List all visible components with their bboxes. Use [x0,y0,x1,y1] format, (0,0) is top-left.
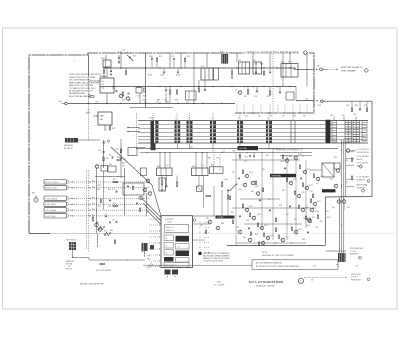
svg-text:R26: R26 [143,96,146,98]
svg-text:R31: R31 [244,96,247,98]
resistor zigzag R69 [104,232,111,236]
svg-text:767: 767 [313,266,316,268]
capacitor C37 [120,157,122,159]
transistor Q50 [346,149,349,152]
capacitor C34 [136,202,138,204]
table bottom cell [164,263,189,268]
table dark cell left [164,257,174,262]
transistor Q56 [294,230,297,233]
wire below Q53 [343,204,345,210]
transistor Q49 [294,156,297,159]
ground stub 178 [177,71,180,73]
svg-text:C52: C52 [345,182,348,184]
svg-text:VOLTS/DIV: VOLTS/DIV [165,219,174,221]
switch section S30-12 [353,121,360,144]
wire control line 1 [70,181,73,183]
dashed drops to y113 rail [236,105,238,114]
wire diagonal 2 [152,185,161,216]
svg-text:C44: C44 [353,114,356,116]
svg-text:C40: C40 [330,115,333,117]
board outline bottom edge [29,232,50,234]
svg-text:0 1: 0 1 [199,222,201,224]
svg-text:Q34: Q34 [206,218,209,220]
relay K21 [201,68,213,80]
svg-text:C54: C54 [347,207,350,209]
resistor R30a [169,90,171,94]
svg-text:L21: L21 [144,102,147,104]
input coupling relay [65,138,78,143]
svg-text:Q101: Q101 [255,186,259,188]
page crease line [29,232,396,234]
transistor Q21 [126,97,129,100]
transistor Q53 [305,186,308,189]
stamp mark [146,263,152,269]
relay K23 [281,64,298,78]
wire x145.5 main [145,53,147,108]
transistor Q40 [243,183,246,186]
svg-text:R86: R86 [255,234,258,236]
svg-text:R117: R117 [312,217,316,219]
transistor Q20 [119,94,122,97]
svg-text:VERTICAL SIGNAL TO: VERTICAL SIGNAL TO [341,66,363,69]
resistor R78 [250,232,251,236]
svg-text:C86: C86 [236,227,239,229]
capacitor C67 [269,209,271,211]
switch section S30-5a [210,121,212,124]
resistor R81 [229,196,230,200]
svg-text:C50: C50 [345,160,348,162]
transistor Q61 [261,241,264,244]
resistor R49 [114,240,115,244]
block U30 [101,166,108,172]
highlighted label ATTEN BAL [270,174,296,178]
bus diagonals into table [140,197,161,218]
svg-text:0 1: 0 1 [199,227,201,229]
svg-text:K23: K23 [281,61,284,63]
svg-text:ATTEN: ATTEN [100,75,106,78]
svg-text:C89: C89 [290,243,293,245]
resistor R63 [242,204,243,208]
svg-text:P: P [359,258,360,260]
ground R41 [161,189,164,191]
svg-text:Q86: Q86 [243,237,246,239]
svg-text:420: 420 [305,98,308,100]
transistor Q63 [307,218,310,221]
circled P symbol [359,256,362,259]
resistor R68 [299,165,300,169]
switch section S30-2b [155,121,158,124]
svg-text:R72: R72 [113,203,116,205]
resistor R34 [117,159,121,161]
wire control line 3 [70,198,73,200]
svg-text:5 mV 1 (S3-4): 5 mV 1 (S3-4) [45,216,56,218]
connector box 2 [44,185,67,190]
wire x339.5 vertical [339,197,341,253]
capacitor C36 [227,189,229,191]
switch section S30-4a [187,121,189,124]
wire x97.5 [97,233,99,247]
transistor Q60 [248,238,251,241]
transistor Q41 [251,181,254,184]
svg-text:C28: C28 [254,96,257,98]
resistor R38 [139,208,140,212]
wire control line 6 [70,215,73,217]
comps near 306-320 y190 [312,194,313,198]
svg-text:C22: C22 [128,99,131,101]
svg-text:TP40: TP40 [244,157,248,159]
capacitor C33 [165,185,167,187]
capacitor C65 [289,205,291,207]
svg-text:0 1: 0 1 [199,242,201,244]
svg-text:C35: C35 [216,158,219,160]
connector P40 hatched [338,253,346,262]
svg-text:R119: R119 [317,201,321,203]
component column row1 [113,181,118,183]
wire x124.5 vertical [124,168,126,215]
transistor Q22 [238,91,241,94]
svg-text:20mV 1 0 1: 20mV 1 0 1 [166,230,174,232]
svg-text:P40: P40 [336,265,339,267]
svg-text:20 mV 1-2 (S3-4): 20 mV 1-2 (S3-4) [45,182,58,184]
switch section S30-5b [213,121,216,124]
svg-text:S30B: S30B [150,147,154,149]
svg-text:0 1: 0 1 [199,237,201,239]
wire diagonal from coupling to table [111,147,152,185]
volts div knob symbol [34,198,38,202]
resistor R72 [298,205,299,209]
wire Q50 right [350,150,356,152]
svg-text:R25: R25 [187,56,190,58]
svg-text:L26: L26 [95,101,98,103]
svg-text:423: 423 [317,65,320,67]
switch section S30-3b [178,121,181,124]
board label VERTICAL MODE ATTENUATOR BOARD [245,50,309,54]
capacitor C28 [255,71,257,73]
svg-text:-5: -5 [267,117,269,119]
wire dashed x136.5 [136,113,138,148]
wire x96.5 vertical [96,168,98,233]
table row 3 dark cell [176,251,190,257]
svg-text:ATTENUATOR CIRCUIT: ATTENUATOR CIRCUIT [69,90,94,93]
svg-text:Q113: Q113 [293,179,297,181]
switch section S30-7b [269,121,272,124]
svg-text:R68: R68 [96,222,99,224]
svg-text:R87: R87 [320,221,323,223]
circle terminal 420 [321,100,324,103]
connector J32 hatched [69,242,76,250]
svg-text:R98: R98 [266,155,269,157]
wire K20 drop [105,55,107,60]
transistor Q46 [260,226,263,229]
svg-text:C27: C27 [253,60,256,62]
transistor Q58 [313,202,316,205]
svg-text:R83: R83 [251,191,254,193]
svg-text:TO CH 2: TO CH 2 [350,251,357,253]
svg-text:+5.1V: +5.1V [165,165,169,167]
dots under table [167,276,168,277]
right shield outline [322,101,372,244]
transistor Q32 [98,228,101,231]
svg-text:-3: -3 [211,117,213,119]
svg-text:P: P [313,73,314,75]
svg-text:438: 438 [293,116,296,118]
resistor R28b [198,88,200,92]
svg-text:R122: R122 [327,217,331,219]
svg-text:USED IN BOTH CH 1 AND: USED IN BOTH CH 1 AND [69,76,96,79]
resistor R29 [231,71,232,75]
dots on y113 rail [243,112,244,113]
svg-text:C88: C88 [315,227,318,229]
ground G31 [105,215,108,217]
wire x103.5 lower [103,171,105,210]
wire hybrid to bus [106,93,108,104]
resistor R60 [242,170,243,174]
relay K22 [239,62,250,74]
connector box 5 [44,208,67,213]
transistor Q53 [337,200,340,203]
svg-text:R111: R111 [289,156,293,158]
separator rule [143,264,252,266]
svg-text:-1: -1 [175,117,177,119]
resistor R41 [161,180,163,185]
resistor R83 [275,218,276,222]
capacitor C26 [165,89,167,91]
switch section S30-6a [237,121,239,124]
relay K31 [192,168,209,176]
module X21 [214,68,219,80]
svg-text:C28: C28 [254,64,257,66]
switch cam box [123,183,144,195]
transistor Q54 [301,208,304,211]
right diamond symbol 2 [361,189,365,193]
wire below U21 [104,125,106,131]
transistor Q30 [95,165,98,168]
component column row4 [115,221,117,223]
svg-text:P20: P20 [220,52,223,54]
svg-text:R90: R90 [282,190,285,192]
svg-text:407: 407 [311,280,314,282]
svg-text:K32: K32 [211,165,214,167]
resistor R70 [294,191,295,195]
capacitor C29 [269,71,271,73]
table row 2 left [164,243,174,249]
switch section S30-3a [175,121,177,124]
svg-text:C31: C31 [156,102,159,104]
resistor R30c [103,157,104,161]
wire y176.5 [95,176,125,178]
svg-text:R54: R54 [332,207,335,209]
svg-text:TEST SELECT: TEST SELECT [66,239,76,241]
svg-text:0 1 1: 0 1 1 [177,246,181,248]
transistor Q52 [297,194,300,197]
svg-text:C99: C99 [244,161,247,163]
relay K30 [157,168,173,176]
svg-text:R99: R99 [238,155,241,157]
transistor Q50 [303,170,306,173]
switch contact block S30-9 [326,120,331,143]
svg-text:C64: C64 [108,189,111,191]
attenuator band inner rails [138,124,366,126]
svg-text:W30 P1: W30 P1 [66,269,72,271]
svg-text:C23: C23 [112,88,115,90]
component column row2 [115,190,117,192]
connector box 4 [44,202,67,207]
svg-text:C32: C32 [108,155,111,157]
svg-text:CH 1 ATTENUATORS: CH 1 ATTENUATORS [249,280,283,284]
svg-text:431: 431 [245,116,248,118]
table top cell [165,225,189,233]
transistor Q55 [308,219,311,222]
resistor R27b [263,71,264,75]
svg-text:Q103: Q103 [257,214,261,216]
svg-text:CH 2 ATTENUATORS.: CH 2 ATTENUATORS. [69,79,91,82]
svg-text:R32: R32 [267,96,270,98]
svg-text:R35: R35 [122,163,125,165]
cluster x172-196 [176,90,177,94]
crystal Y30 [197,186,203,192]
wire vertical input bus [87,55,89,76]
vertical dashed bus left [86,170,88,250]
svg-text:R95: R95 [232,172,235,174]
box U22 [186,91,197,100]
svg-text:+30V: +30V [232,151,236,153]
switch section S30-11 [345,121,352,143]
svg-text:Q111: Q111 [298,154,302,156]
svg-text:C81: C81 [303,218,306,220]
capacitor C38 [109,221,111,223]
hatched block left of table [142,243,148,251]
wire drops from top rail [120,53,122,68]
resistor R79 [258,242,259,246]
svg-text:R115: R115 [309,185,313,187]
svg-text:440: 440 [303,116,306,118]
highlighted label SW row [216,216,235,219]
wire stubs above band [152,113,154,121]
svg-text:R22: R22 [122,99,125,101]
note block bullet [199,252,202,255]
svg-text:707: 707 [356,266,359,268]
svg-text:-2: -2 [188,117,190,119]
wire field verticals [235,153,237,246]
right circled symbol 2a [367,180,370,183]
svg-text:R82: R82 [294,219,297,221]
resistor R47b [227,195,228,199]
resistor R20 [89,96,94,98]
svg-text:R120: R120 [306,225,310,227]
svg-text:C60: C60 [346,105,349,107]
wire dashed x273 [272,53,274,112]
capacitor C25b [173,58,175,60]
svg-text:TO PARTS LIST FOR CH 2: TO PARTS LIST FOR CH 2 [69,87,96,90]
svg-text:R45: R45 [208,158,211,160]
capacitor C74 [253,155,255,157]
wires center verticals [213,186,215,216]
svg-text:R50: R50 [334,157,337,159]
svg-text:Q117: Q117 [298,229,302,231]
diode box CR40 [322,163,334,177]
capacitor C27 [204,89,206,91]
switch section S30-4b [190,121,193,124]
wire bus y103.5 [68,103,235,105]
wire x103.5 vertical [103,140,105,168]
ground stub 160 [163,71,166,73]
wire control line 2 [70,187,73,189]
small block 2 left of table [150,245,154,250]
resistor R23 [156,58,157,62]
svg-text:C66: C66 [108,206,111,208]
svg-text:-4: -4 [238,117,240,119]
transistor Q45 [252,216,255,219]
svg-text:A1 @ ATTENUATOR BOARD A3: A1 @ ATTENUATOR BOARD A3 [256,261,282,264]
svg-text:R23: R23 [159,56,162,58]
svg-text:PARTS AND VALUES SHOWN: PARTS AND VALUES SHOWN [69,81,100,84]
svg-text:ATTEN BAL: ATTEN BAL [272,175,282,178]
transistor Q33 [146,179,149,182]
svg-text:R88: R88 [302,239,305,241]
transistor Q48 [285,159,288,162]
svg-text:SWITCH SIG: SWITCH SIG [351,274,361,276]
wire vertical out [294,68,314,70]
svg-text:CAL: CAL [100,118,104,121]
transistor Q64 [238,230,241,233]
box U23 [286,92,294,100]
exit dashed lower [304,276,345,278]
note box A1 [252,260,338,270]
svg-text:K20: K20 [101,58,104,60]
highlighted label 5mV [238,146,259,150]
svg-text:W30: W30 [147,256,150,258]
svg-text:P: P [313,105,314,107]
transistor Q37 [148,192,151,195]
resistor R75 [278,235,279,239]
resistor R24 [103,70,104,74]
svg-text:R105: R105 [264,225,268,227]
resistor R25 [125,71,126,75]
svg-text:.5 V 1-2 (S3-4): .5 V 1-2 (S3-4) [45,210,57,212]
svg-text:Q105: Q105 [270,235,274,237]
svg-text:LOGIC: LOGIC [167,222,173,224]
svg-text:50mV 0 1 0: 50mV 0 1 0 [166,227,174,229]
components upper cluster [108,166,116,172]
connector box 6 [44,213,67,218]
wire K20 to hybrid [106,68,108,78]
svg-text:4: 4 [304,53,305,55]
resistor zigzag R68 [98,226,105,230]
transistor Q36 [143,188,146,191]
diagram number circle [298,278,303,283]
svg-text:LINE: LINE [318,105,321,107]
wire bus y107 [130,107,173,109]
transistor Q47 [266,236,269,239]
box mid cluster [128,148,137,156]
transistor Q43 [256,192,259,195]
svg-text:C93: C93 [246,220,249,222]
diamond symbol vert preamp [364,68,368,72]
wire stub TP30 [144,251,146,257]
resistor R31 [247,90,249,94]
svg-text:C30: C30 [98,150,101,152]
connector box 1 [44,180,67,185]
gain cal block U21 [98,112,112,125]
wire y155.8 right [280,155,312,157]
svg-text:R34: R34 [117,157,120,159]
svg-text:R30: R30 [106,158,109,160]
wire bottom-left bus [89,259,145,261]
wire y216 segment [193,215,228,217]
resistor R48 [205,230,206,234]
svg-text:J32: J32 [68,266,71,268]
relay K29b [141,168,147,176]
